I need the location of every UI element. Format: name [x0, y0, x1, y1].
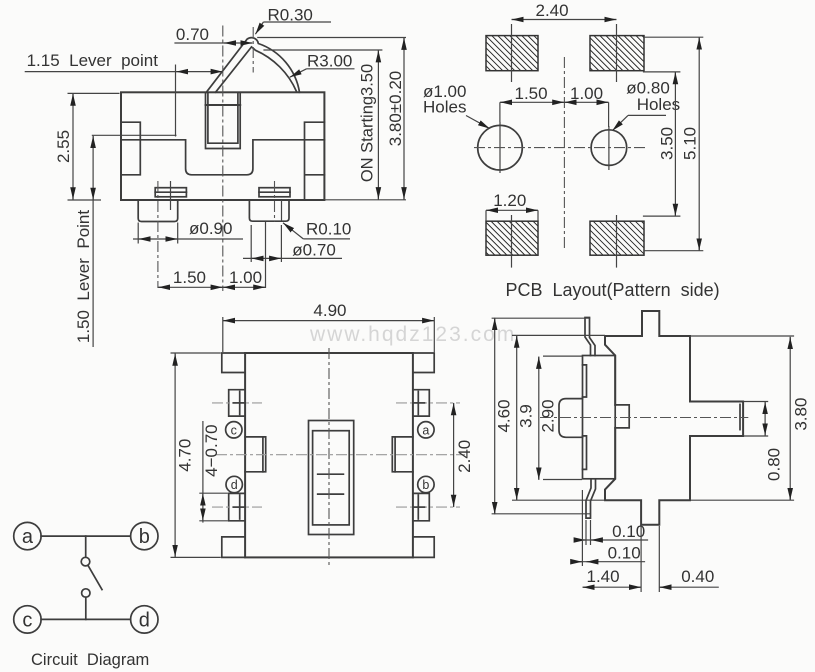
plate slot upper	[583, 365, 587, 397]
pad bottom-left	[486, 221, 538, 255]
dimension 4.70	[171, 353, 221, 557]
svg-text:5.10: 5.10	[680, 127, 699, 160]
dimension 4.60	[492, 318, 591, 515]
center slot inner (top view)	[313, 431, 350, 525]
body (top view)	[245, 353, 413, 557]
hole center marks	[500, 122, 609, 173]
terminal circle c	[226, 422, 242, 438]
dimension ON Starting3.50	[263, 50, 382, 200]
dimension 2.40	[512, 1, 617, 20]
centerline horizontal	[474, 147, 648, 149]
svg-text:Holes: Holes	[423, 98, 466, 117]
dimension ø0.70	[243, 225, 342, 262]
right side bump	[392, 437, 413, 472]
svg-text:www.hqdz123.com: www.hqdz123.com	[309, 323, 516, 346]
corner tab top-right	[413, 353, 434, 373]
svg-text:1.50: 1.50	[515, 84, 548, 103]
pad centerlines	[512, 24, 617, 268]
svg-text:1.50 Lever Point: 1.50 Lever Point	[74, 210, 93, 344]
dimension 0.70	[174, 25, 252, 44]
corner tab bottom-right	[413, 537, 434, 558]
dimension 1.50 / 1.00	[158, 268, 266, 287]
pad top-left	[486, 36, 538, 71]
svg-text:1.15 Lever point: 1.15 Lever point	[27, 51, 159, 70]
lever slot outer	[206, 92, 241, 148]
right collar	[259, 188, 290, 197]
label ø1.00 Holes	[423, 82, 490, 129]
right step	[305, 122, 325, 200]
dimension 0.10 upper	[575, 520, 649, 545]
dimension 0.10 lower	[572, 490, 646, 566]
svg-text:d: d	[231, 478, 238, 492]
svg-text:1.40: 1.40	[587, 567, 620, 586]
svg-text:0.10: 0.10	[612, 522, 645, 541]
centerline right pin	[266, 181, 275, 288]
centerline (side view)	[540, 417, 748, 419]
inner cavity	[121, 140, 324, 175]
terminal b	[131, 522, 158, 549]
svg-text:c: c	[231, 423, 237, 437]
wire stub bottom	[85, 597, 87, 619]
dimension 3.80 (side view)	[690, 336, 810, 500]
lower lead	[586, 479, 596, 518]
pin a pad	[413, 390, 429, 416]
pin d pad	[229, 493, 245, 520]
svg-text:a: a	[422, 423, 429, 437]
svg-text:Circuit Diagram: Circuit Diagram	[31, 651, 149, 669]
dimension R0.10	[283, 220, 351, 239]
dimension 1.15 Lever point	[25, 51, 223, 137]
svg-text:a: a	[22, 526, 34, 548]
terminal c	[14, 606, 41, 633]
svg-text:4−0.70: 4−0.70	[202, 424, 221, 476]
pad top-right	[590, 36, 644, 71]
lever outer edge	[206, 38, 299, 93]
dimension 1.50 Lever Point	[74, 136, 93, 347]
dimension 2.40 (top view)	[454, 403, 474, 507]
hole ø1.00	[478, 125, 523, 170]
pin b pad	[413, 493, 429, 520]
dimension 1.50 / 1.00 (pcb)	[500, 84, 609, 127]
plate slot lower	[583, 436, 587, 470]
left collar	[155, 188, 186, 197]
svg-text:0.40: 0.40	[681, 567, 714, 586]
centerline vertical (top view)	[328, 348, 330, 565]
wire c-d	[41, 618, 131, 620]
lever point line	[92, 134, 177, 136]
svg-text:1.20: 1.20	[493, 191, 526, 210]
contact plate	[583, 356, 616, 479]
svg-text:2.40: 2.40	[536, 1, 569, 20]
pin c pad	[229, 390, 245, 416]
svg-text:3.80: 3.80	[791, 398, 810, 431]
svg-text:b: b	[139, 526, 150, 548]
svg-text:1.50: 1.50	[173, 268, 206, 287]
housing outline (side view)	[605, 311, 743, 525]
dimension 2.90	[539, 356, 583, 480]
svg-text:3.50: 3.50	[657, 127, 676, 160]
svg-text:3.80±0.20: 3.80±0.20	[386, 71, 405, 147]
switch body (front view)	[121, 92, 324, 200]
centerline vertical	[563, 57, 565, 248]
left pin	[138, 181, 178, 222]
switch contact bottom	[82, 589, 90, 597]
svg-text:ON Starting3.50: ON Starting3.50	[359, 64, 377, 182]
dimension 4-0.70	[199, 421, 228, 523]
dimension 0.40	[659, 526, 719, 592]
svg-text:4.60: 4.60	[495, 399, 514, 432]
svg-text:1.00: 1.00	[229, 268, 262, 287]
dimension 3.50 (pcb)	[643, 72, 681, 216]
svg-text:2.55: 2.55	[54, 130, 73, 163]
switch contact top	[81, 557, 90, 566]
centerline main	[222, 26, 224, 292]
right pin	[249, 200, 289, 221]
svg-text:2.40: 2.40	[455, 440, 474, 473]
svg-text:R3.00: R3.00	[307, 52, 352, 71]
lever slot inner	[206, 92, 241, 143]
svg-text:0.70: 0.70	[176, 25, 209, 44]
svg-text:R0.10: R0.10	[306, 220, 351, 239]
contact dome	[559, 399, 583, 438]
label ø0.80 Holes	[612, 79, 680, 131]
dimension 3.9	[512, 335, 605, 500]
wire a-b	[41, 535, 131, 537]
svg-text:Holes: Holes	[637, 95, 680, 114]
upper lead	[585, 318, 595, 356]
center slot outer (top view)	[309, 421, 354, 535]
terminal circle d	[226, 476, 242, 492]
terminal circle a	[418, 422, 434, 438]
plunger tip line	[739, 404, 741, 429]
svg-text:b: b	[422, 478, 429, 492]
pad bottom-right	[590, 221, 644, 255]
centerline left pin	[157, 181, 159, 288]
watermark	[309, 323, 516, 346]
svg-text:PCB Layout(Pattern side): PCB Layout(Pattern side)	[506, 280, 720, 300]
wire stub top	[85, 536, 87, 557]
pin centerlines (top view)	[212, 403, 460, 507]
dimension 2.55	[54, 93, 120, 200]
dimension 0.80	[743, 402, 783, 481]
dimension 4.90	[223, 301, 434, 352]
svg-text:1.00: 1.00	[570, 84, 603, 103]
lever inner edge	[216, 47, 297, 92]
dimension 5.10 (pcb)	[644, 37, 703, 251]
corner tab top-left	[222, 353, 245, 373]
corner tab bottom-left	[222, 537, 245, 558]
dimension R0.30	[255, 6, 331, 35]
dimension 3.80±0.20	[257, 38, 406, 200]
caption PCB Layout	[506, 280, 720, 300]
svg-text:0.10: 0.10	[608, 544, 641, 563]
hole ø0.80	[591, 130, 627, 166]
switch blade	[88, 566, 102, 590]
svg-text:2.90: 2.90	[539, 399, 558, 432]
centerline horizontal (top view)	[216, 454, 465, 456]
terminal a	[14, 522, 41, 549]
terminal d	[131, 606, 158, 633]
centerline lever tip	[252, 27, 254, 73]
dimension 1.40	[583, 526, 642, 592]
caption Circuit Diagram	[31, 651, 149, 669]
terminal circle b	[418, 476, 434, 492]
dimension 1.20	[486, 191, 538, 221]
svg-text:0.80: 0.80	[764, 448, 783, 481]
housing notch (side view)	[615, 405, 629, 428]
svg-text:c: c	[22, 609, 32, 631]
svg-text:d: d	[139, 609, 150, 631]
svg-text:4.90: 4.90	[313, 301, 346, 320]
left step	[121, 122, 140, 175]
dimension ø0.90	[133, 219, 243, 244]
left side bump	[245, 437, 266, 472]
dimension R3.00	[290, 52, 355, 78]
svg-text:ø0.70: ø0.70	[292, 240, 335, 259]
svg-text:ø0.90: ø0.90	[189, 219, 232, 238]
svg-text:4.70: 4.70	[176, 439, 195, 472]
svg-text:3.9: 3.9	[516, 404, 535, 428]
